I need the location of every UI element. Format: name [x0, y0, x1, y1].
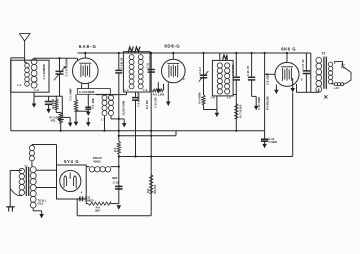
IF1 secondary coil [138, 55, 143, 60]
svg-text:FILS.: FILS. [38, 202, 44, 205]
capacitor C-10 with ground [261, 138, 268, 140]
svg-text:C-1-C: C-1-C [198, 67, 202, 74]
svg-text:5Y4 G: 5Y4 G [64, 159, 79, 164]
capacitor C-4 with ground [87, 94, 89, 107]
ground arrow 6D8 cathode [157, 82, 159, 89]
svg-text:C-16 .05: C-16 .05 [246, 65, 250, 76]
svg-text:C-19: C-19 [113, 181, 119, 185]
arrow B minus return [117, 205, 122, 209]
svg-text:R-5: R-5 [113, 147, 117, 152]
x mark [324, 95, 327, 98]
wire rail jog [119, 135, 176, 137]
svg-text:C-16 .05MF: C-16 .05MF [258, 96, 261, 110]
wire field line [118, 157, 120, 204]
svg-text:6A8-G: 6A8-G [79, 44, 97, 49]
svg-text:390 -: 390 - [95, 209, 101, 213]
svg-text:.1 MFD: .1 MFD [268, 140, 277, 144]
wire 6A8 leads to box [81, 83, 83, 88]
svg-text:C-11: C-11 [146, 62, 150, 68]
svg-text:L-10: L-10 [334, 87, 340, 90]
svg-text:R-6: R-6 [146, 188, 150, 193]
ground arrow diode [216, 110, 218, 114]
variable capacitor C1-A [59, 58, 61, 71]
T1 secondary [30, 167, 36, 173]
tube 5Y4-G [60, 170, 81, 191]
slug mark M [223, 55, 228, 60]
T1 primary [19, 168, 24, 173]
svg-text:R-4 2M: R-4 2M [145, 100, 149, 109]
svg-text:C-6 250MMF: C-6 250MMF [136, 91, 140, 107]
junction dots [84, 52, 86, 54]
tube 6D8-G [162, 59, 186, 83]
oscillator coil L-3 [102, 95, 107, 100]
wire bottom loop [76, 199, 78, 216]
resistor R-3b [152, 89, 164, 92]
wire rail B minus [11, 130, 265, 132]
svg-text:450Ω: 450Ω [93, 160, 101, 164]
wire 6K6 grid [265, 73, 275, 75]
wire 6D8 plate stub [172, 53, 174, 59]
potentiometer R-1 50M VOL [55, 110, 57, 113]
svg-text:L-6: L-6 [211, 97, 215, 100]
resistor R-2 [55, 96, 57, 99]
svg-text:L-8: L-8 [227, 97, 231, 100]
wire L-3 bottom [104, 116, 106, 131]
svg-text:L-3: L-3 [101, 117, 106, 121]
ground arrow fils [41, 211, 43, 215]
svg-text:R-3 1,000: R-3 1,000 [153, 92, 165, 96]
wire antenna to left rail [11, 57, 25, 59]
ground arrow under L1 [33, 96, 35, 104]
svg-text:6D8-G: 6D8-G [164, 44, 180, 49]
capacitor C-11 [148, 69, 155, 71]
wire grid line [33, 58, 35, 60]
wire 6A8 plate stub [84, 53, 86, 58]
tube 6K6-G [275, 62, 299, 86]
wire left rail [10, 58, 12, 131]
wires T1 to rectifier [36, 169, 56, 171]
speaker voice coil [335, 61, 351, 84]
svg-text:C-3 60 MMF: C-3 60 MMF [79, 90, 95, 94]
avc arrow [119, 118, 124, 120]
wire R-6 to ground [203, 104, 205, 109]
antenna coil box [11, 60, 49, 92]
ground arrow 6D8 suppressor [167, 83, 169, 102]
speaker hum coil [334, 83, 337, 86]
svg-text:R-6 400M: R-6 400M [199, 93, 202, 104]
ground arrow cathode [75, 111, 77, 122]
coil L1 primary [25, 63, 30, 68]
svg-text:L-1: L-1 [17, 83, 22, 87]
IF2 primary coil [217, 63, 222, 68]
capacitor C-5 line [118, 53, 120, 70]
resistor R-5 [118, 136, 120, 142]
svg-text:C-15 8MF: C-15 8MF [231, 64, 235, 76]
IF1 primary coil [129, 55, 134, 60]
capacitor C-16 line [251, 53, 253, 77]
svg-text:300,000: 300,000 [153, 184, 157, 194]
AC plug [9, 171, 11, 207]
svg-text:C-4 .1MF: C-4 .1MF [91, 98, 95, 109]
oscillator coil L-4 [108, 95, 113, 100]
svg-text:R-8 500,000: R-8 500,000 [266, 96, 269, 110]
IF transformer 1 box [123, 52, 150, 92]
T2 primary coil [316, 57, 322, 63]
svg-text:V.C.: V.C. [341, 67, 346, 70]
wire IF1 left lead [126, 92, 128, 95]
wire plate line [310, 53, 312, 92]
svg-text:T2: T2 [322, 51, 326, 55]
coil L1 secondary [31, 59, 37, 65]
svg-text:R-2 50M: R-2 50M [51, 99, 55, 109]
svg-text:25,000 OHM: 25,000 OHM [122, 101, 126, 116]
svg-text:C-2 .05MF: C-2 .05MF [68, 88, 72, 101]
wire cathode rail [33, 92, 35, 96]
svg-text:6K6 G: 6K6 G [281, 47, 296, 52]
IF2 secondary coil [225, 63, 230, 68]
wire IF2 secondary return [216, 96, 218, 110]
capacitor C-2 with ground [48, 96, 50, 101]
rectifier box [57, 165, 87, 199]
ground arrow C-16 [255, 96, 257, 106]
svg-text:L-4: L-4 [125, 89, 129, 92]
svg-text:C-14 250: C-14 250 [154, 97, 158, 108]
capacitor C-19 [115, 185, 122, 187]
coupling line C-8 [264, 53, 266, 139]
resistor R-6 diode load [203, 78, 205, 95]
svg-text:C-1-A 420MMF: C-1-A 420MMF [64, 58, 68, 77]
capacitor C-15 line [235, 53, 237, 77]
heater winding [29, 145, 34, 150]
svg-text:R-7 50,000: R-7 50,000 [238, 104, 242, 117]
wire L-4 bottom [110, 116, 112, 119]
tube 6A8-G [73, 58, 99, 84]
wire B plus vertical [292, 93, 294, 157]
svg-text:VOL.: VOL. [51, 119, 57, 123]
line switch [10, 189, 14, 193]
filament winding [30, 196, 36, 202]
trimmer C-1-C [203, 53, 205, 75]
wire IF2 top leads [219, 53, 221, 60]
wire AVC line [150, 53, 152, 216]
ground arrow 6K6 cathode [275, 85, 277, 91]
resistor R-6 300000 [150, 175, 153, 194]
ground arrow right of pot [61, 96, 63, 117]
svg-text:L-6: L-6 [143, 89, 147, 92]
wire top bus [78, 52, 311, 54]
wire osc coil top [96, 94, 116, 96]
slug marks M M [128, 47, 133, 53]
T2 core [323, 57, 325, 89]
wire 6K6 grid stub [286, 53, 288, 62]
svg-text:L-2: L-2 [35, 88, 40, 92]
ground arrow under C-4 [87, 118, 89, 123]
resistor R-9 390 [85, 199, 87, 204]
capacitor C-6 line [135, 92, 137, 98]
resistor R-7 [235, 104, 238, 119]
svg-text:C-17 .05: C-17 .05 [301, 59, 305, 70]
resistor R-3 cathode [75, 94, 77, 99]
T2 secondary coil [328, 62, 332, 66]
capacitor C-17 [305, 53, 307, 71]
arrow 6K6 beam [292, 78, 294, 89]
svg-text:C-1 420MMF: C-1 420MMF [42, 63, 46, 79]
svg-text:8MF: 8MF [112, 176, 118, 180]
IF transformer 2 box [212, 60, 233, 96]
antenna [19, 34, 30, 41]
label box C-3 60 MMF [77, 89, 110, 95]
T1 core [25, 167, 27, 196]
capacitor C-18 [77, 198, 79, 200]
field coil [86, 166, 89, 168]
wire rail B plus [119, 156, 293, 158]
